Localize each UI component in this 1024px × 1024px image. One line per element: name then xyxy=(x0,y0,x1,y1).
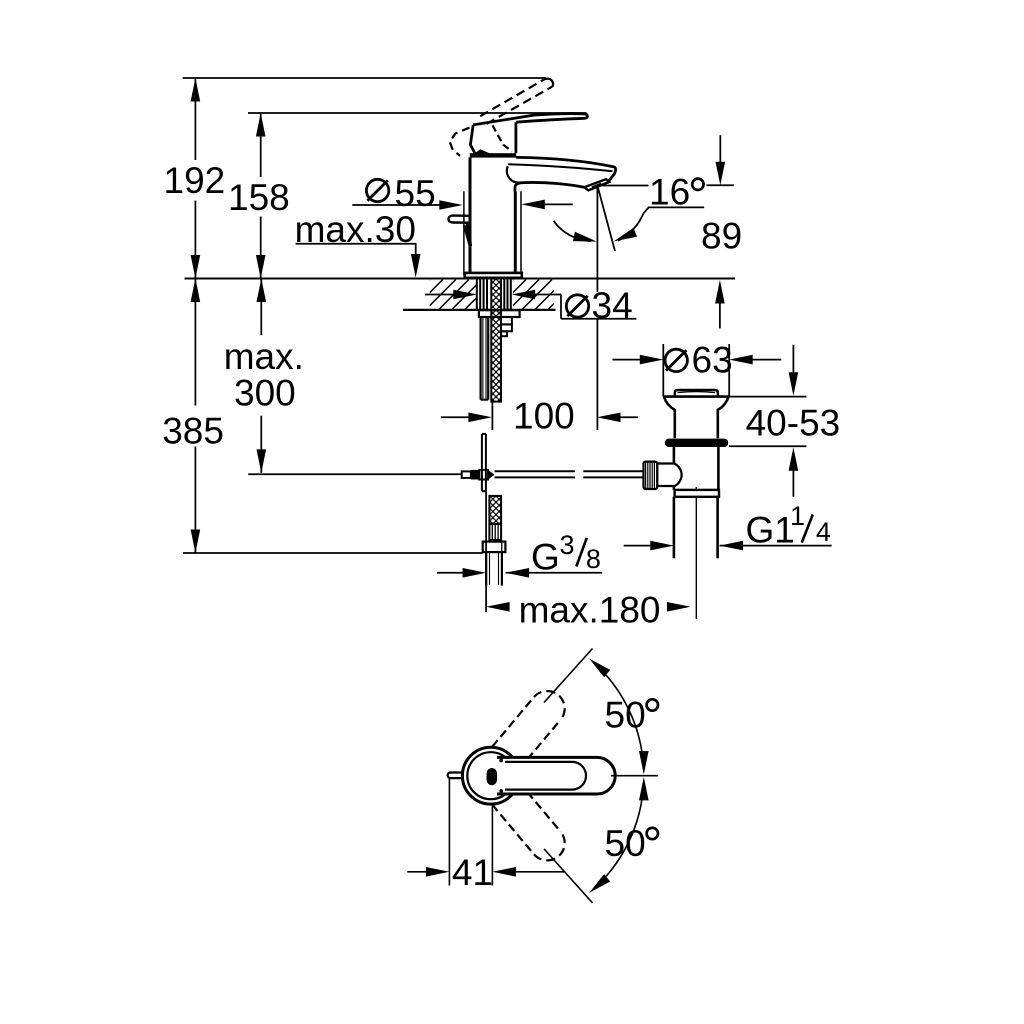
svg-text:63: 63 xyxy=(692,340,733,381)
svg-text:max.180: max.180 xyxy=(519,589,661,630)
svg-text:158: 158 xyxy=(228,177,290,218)
svg-text:41: 41 xyxy=(452,852,493,893)
svg-text:192: 192 xyxy=(164,160,226,201)
svg-text:8: 8 xyxy=(586,544,601,574)
svg-text:50: 50 xyxy=(605,823,646,864)
svg-text:4: 4 xyxy=(816,517,831,547)
svg-text:300: 300 xyxy=(234,373,296,414)
svg-text:max.: max. xyxy=(224,336,304,377)
svg-text:40-53: 40-53 xyxy=(746,402,841,443)
svg-text:50: 50 xyxy=(605,695,646,736)
svg-text:100: 100 xyxy=(513,396,575,437)
svg-text:385: 385 xyxy=(162,411,224,452)
svg-text:1: 1 xyxy=(790,501,805,531)
svg-text:16: 16 xyxy=(649,172,690,213)
svg-text:G: G xyxy=(531,537,560,578)
svg-text:G1: G1 xyxy=(746,509,795,550)
svg-text:89: 89 xyxy=(701,215,742,256)
svg-text:3: 3 xyxy=(560,530,575,560)
svg-text:55: 55 xyxy=(395,173,436,214)
